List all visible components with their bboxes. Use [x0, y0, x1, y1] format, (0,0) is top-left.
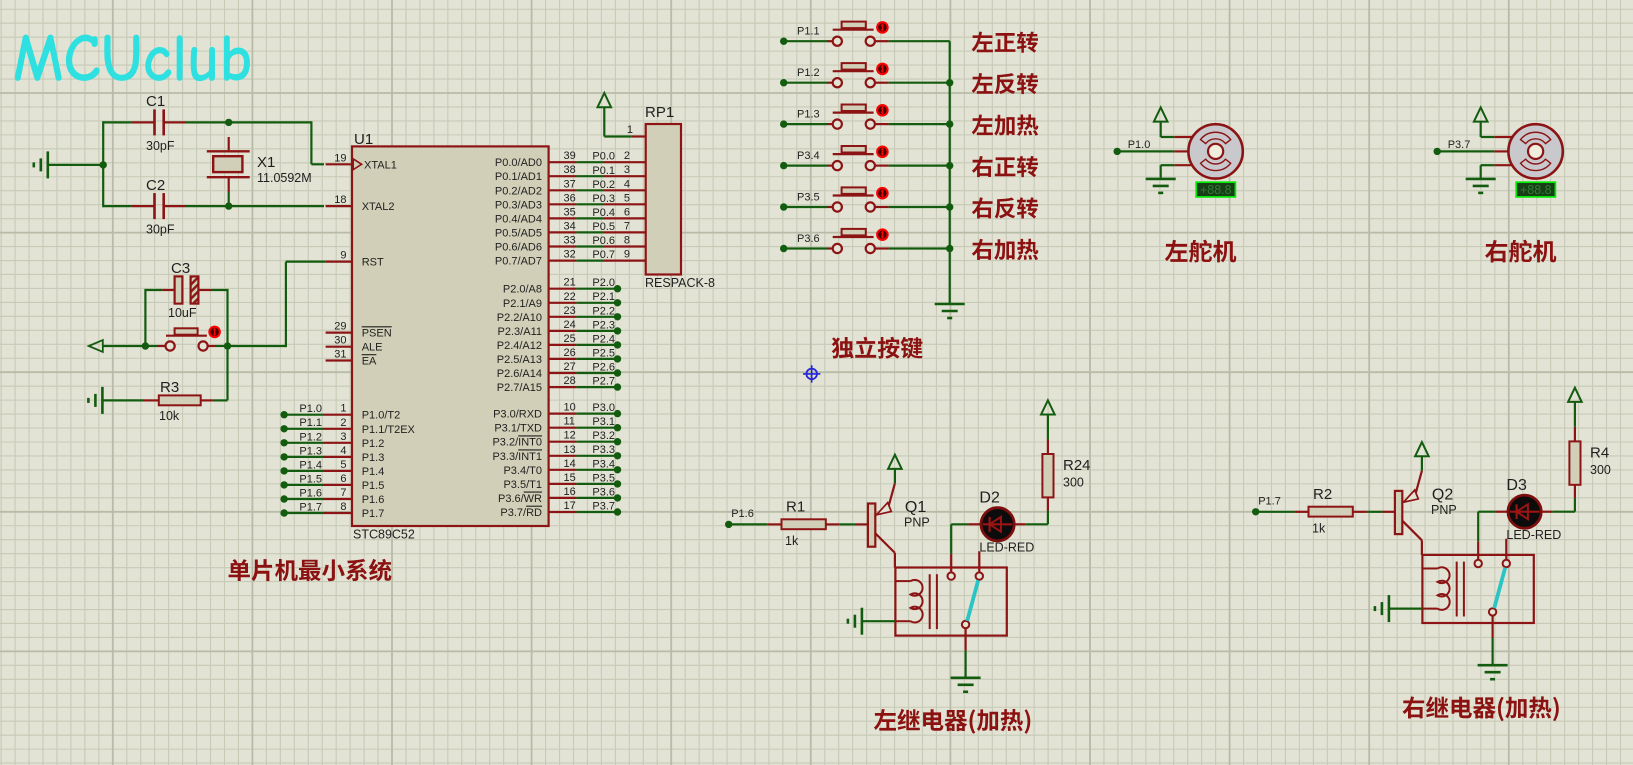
svg-text:15: 15: [564, 472, 576, 484]
svg-text:17: 17: [564, 500, 576, 512]
wire: [576, 316, 617, 318]
svg-text:P0.2/AD2: P0.2/AD2: [495, 185, 542, 197]
svg-text:P3.1: P3.1: [592, 416, 615, 428]
svg-text:23: 23: [564, 305, 576, 317]
node junction: [142, 342, 149, 349]
node P2.0 terminal: [614, 285, 621, 292]
wire: [576, 441, 617, 443]
svg-text:39: 39: [564, 150, 576, 162]
wire: [603, 107, 605, 136]
svg-text:4: 4: [624, 178, 630, 190]
svg-text:32: 32: [564, 249, 576, 261]
svg-text:P0.4: P0.4: [592, 207, 615, 219]
power symbol (Q1 emitter): [888, 455, 902, 469]
button interaction marker: [208, 326, 221, 339]
wire: [228, 192, 230, 206]
svg-text:R24: R24: [1063, 457, 1091, 474]
svg-text:14: 14: [564, 458, 576, 470]
pin 35 P0.4/AD4: [549, 217, 577, 219]
svg-text:P0.6/AD6: P0.6/AD6: [495, 242, 542, 254]
svg-text:5: 5: [624, 192, 630, 204]
wire: [102, 399, 143, 401]
svg-text:RST: RST: [362, 257, 384, 269]
svg-text:24: 24: [564, 319, 576, 331]
svg-text:P2.1: P2.1: [592, 291, 615, 303]
wire: [889, 82, 950, 84]
pin 3 P1.2: [324, 442, 352, 444]
svg-text:P1.0: P1.0: [299, 403, 322, 415]
svg-text:P2.3/A11: P2.3/A11: [498, 326, 542, 338]
svg-text:P1.3: P1.3: [299, 445, 322, 457]
node P1.7 terminal: [1252, 508, 1259, 515]
svg-text:10: 10: [564, 402, 576, 414]
resistor pack pin 5: [604, 203, 646, 205]
wire: [576, 344, 617, 346]
node junction: [225, 119, 232, 126]
wire: [226, 289, 228, 346]
wire: [784, 165, 827, 167]
svg-text:33: 33: [564, 235, 576, 247]
svg-text:C3: C3: [171, 260, 190, 277]
svg-text:P3.3/INT1: P3.3/INT1: [492, 451, 542, 463]
svg-text:+88.8: +88.8: [1520, 183, 1552, 197]
svg-text:P0.5: P0.5: [592, 221, 615, 233]
capacitor C1: [131, 121, 154, 123]
push button P1.1: [827, 40, 833, 42]
pin 28 P2.7/A15: [549, 386, 577, 388]
resistor R1: [768, 523, 782, 525]
svg-text:37: 37: [564, 178, 576, 190]
svg-text:P3.4: P3.4: [592, 458, 615, 470]
resistor R3: [144, 399, 159, 401]
wire: [889, 165, 950, 167]
wire: [784, 82, 827, 84]
ground (reset divider): [101, 387, 104, 414]
svg-text:13: 13: [564, 444, 576, 456]
svg-text:3: 3: [340, 431, 346, 443]
wire: [1389, 607, 1423, 609]
resistor pack pin 7: [604, 231, 646, 233]
resistor pack pin 1: [632, 135, 646, 137]
wire: [784, 40, 827, 42]
pin 15 P3.5/T1: [549, 483, 577, 485]
wire: [103, 205, 131, 207]
push button P1.3: [827, 123, 833, 125]
node P3.6 terminal: [614, 494, 621, 501]
node P3.7 terminal: [614, 508, 621, 515]
wire: [894, 469, 896, 483]
svg-text:P2.4: P2.4: [592, 333, 615, 345]
pin 7 P1.6: [324, 498, 352, 500]
relay lever: [967, 580, 978, 621]
svg-text:STC89C52: STC89C52: [353, 528, 415, 542]
svg-text:P0.3: P0.3: [592, 193, 615, 205]
wire: [576, 455, 617, 457]
wire: [1025, 523, 1048, 525]
wire: [576, 175, 603, 177]
pin 23 P2.2/A10: [549, 316, 577, 318]
svg-text:P2.3: P2.3: [592, 319, 615, 331]
svg-text:22: 22: [564, 291, 576, 303]
pin 13 P3.3/INT1: [549, 455, 577, 457]
wire: [284, 470, 324, 472]
resistor R2: [1295, 511, 1309, 513]
resistor pack pin 2: [604, 161, 646, 163]
label 右正转: [972, 156, 1038, 177]
wire: [576, 231, 603, 233]
title 右继电器(加热): [1403, 696, 1559, 721]
wire: [1480, 122, 1482, 138]
node P1.7 terminal: [280, 509, 287, 516]
svg-text:X1: X1: [257, 154, 275, 171]
node P1.0 terminal: [1114, 148, 1121, 155]
capacitor C3 (electrolytic): [162, 289, 174, 291]
svg-text:C1: C1: [146, 93, 165, 110]
transistor Q1 (PNP): [856, 523, 868, 525]
svg-text:9: 9: [624, 249, 630, 261]
pin 36 P0.3/AD3: [549, 203, 577, 205]
svg-text:P3.7: P3.7: [592, 501, 615, 513]
svg-text:P0.5/AD5: P0.5/AD5: [495, 227, 542, 239]
pin 19 XTAL1: [326, 163, 352, 165]
svg-text:P2.0/A8: P2.0/A8: [503, 284, 542, 296]
svg-text:26: 26: [564, 347, 576, 359]
pin 37 P0.2/AD2: [549, 189, 577, 191]
svg-text:12: 12: [564, 430, 576, 442]
svg-text:2: 2: [340, 417, 346, 429]
push button P3.6: [827, 247, 833, 249]
svg-text:XTAL1: XTAL1: [364, 159, 397, 171]
svg-text:30pF: 30pF: [146, 223, 175, 237]
pin 14 P3.4/T0: [549, 469, 577, 471]
wire: [576, 427, 617, 429]
power symbol (RP1 common): [598, 93, 612, 107]
pin 27 P2.6/A14: [549, 372, 577, 374]
svg-text:P1.1: P1.1: [299, 417, 322, 429]
node junction: [946, 120, 953, 127]
node P3.5 terminal: [780, 203, 787, 210]
pin 26 P2.5/A13: [549, 358, 577, 360]
svg-text:Q2: Q2: [1432, 486, 1453, 503]
wire: [284, 442, 324, 444]
servo angle display: [1516, 182, 1555, 197]
pin 11 P3.1/TXD: [549, 427, 577, 429]
node P3.0 terminal: [614, 410, 621, 417]
node P3.7 terminal: [1434, 148, 1441, 155]
svg-text:300: 300: [1063, 476, 1084, 490]
wire: [228, 345, 286, 347]
resistor pack pin 8: [604, 245, 646, 247]
motor (servo) body: [1508, 124, 1562, 178]
wire: [729, 523, 768, 525]
svg-text:P2.1/A9: P2.1/A9: [503, 298, 542, 310]
svg-text:30pF: 30pF: [146, 139, 175, 153]
wire: [211, 289, 228, 291]
node P3.1 terminal: [614, 424, 621, 431]
svg-text:P0.1/AD1: P0.1/AD1: [495, 171, 542, 183]
svg-text:21: 21: [564, 277, 576, 289]
motor pin: [1174, 136, 1192, 138]
wire: [576, 245, 603, 247]
node P1.3 terminal: [280, 453, 287, 460]
wire: [1367, 511, 1383, 513]
node junction: [224, 342, 231, 349]
svg-text:28: 28: [564, 375, 576, 387]
wire: [576, 189, 603, 191]
wire: [48, 164, 103, 166]
wire: [576, 413, 617, 415]
node P3.4 terminal: [614, 466, 621, 473]
svg-text:P0.3/AD3: P0.3/AD3: [495, 199, 542, 211]
ground (servo): [1466, 178, 1496, 181]
wire: [889, 247, 950, 249]
push button P1.2: [827, 82, 833, 84]
svg-text:18: 18: [334, 194, 346, 206]
wire: [1421, 457, 1423, 471]
wire: [576, 330, 617, 332]
wire: [186, 121, 311, 123]
wire: [576, 302, 617, 304]
svg-text:P0.0: P0.0: [592, 151, 615, 163]
svg-text:P0.4/AD4: P0.4/AD4: [495, 213, 542, 225]
label 右舵机: [1485, 240, 1556, 263]
svg-text:9: 9: [340, 250, 346, 262]
capacitor C2: [131, 205, 154, 207]
motor pin: [1174, 150, 1188, 152]
svg-text:P1.6: P1.6: [299, 488, 322, 500]
push button P3.5: [827, 206, 833, 208]
wire: [284, 456, 324, 458]
ground (relay coil): [1388, 595, 1391, 622]
svg-text:P1.3: P1.3: [797, 109, 820, 121]
svg-text:1: 1: [627, 124, 633, 136]
wire: [576, 161, 603, 163]
node junction: [946, 162, 953, 169]
wire: [1160, 122, 1162, 138]
LED D3: [1495, 511, 1508, 513]
node junction: [946, 79, 953, 86]
wire: [576, 483, 617, 485]
resistor pack pin 9: [604, 260, 646, 262]
svg-text:P1.2: P1.2: [797, 67, 820, 79]
svg-text:P3.0/RXD: P3.0/RXD: [493, 409, 542, 421]
pin 10 P3.0/RXD: [549, 413, 577, 415]
wire: [1491, 638, 1493, 665]
node P2.5 terminal: [614, 355, 621, 362]
svg-text:31: 31: [334, 349, 346, 361]
node P3.3 terminal: [614, 452, 621, 459]
wire: [1437, 150, 1494, 152]
svg-text:300: 300: [1590, 463, 1611, 477]
svg-text:P3.3: P3.3: [592, 444, 615, 456]
pin 25 P2.4/A12: [549, 344, 577, 346]
node P2.6 terminal: [614, 369, 621, 376]
resistor pack pin 3: [604, 175, 646, 177]
wire: [576, 260, 603, 262]
svg-text:P3.4: P3.4: [797, 150, 820, 162]
svg-text:P1.6: P1.6: [362, 494, 385, 506]
svg-text:P2.7/A15: P2.7/A15: [497, 382, 542, 394]
relay switch contacts: [1477, 541, 1479, 559]
motor pin: [1174, 164, 1192, 166]
svg-text:D3: D3: [1506, 477, 1527, 494]
wire: [1574, 402, 1576, 427]
svg-text:7: 7: [624, 220, 630, 232]
power symbol (servo +V): [1154, 107, 1168, 121]
wire: [889, 40, 950, 42]
svg-text:16: 16: [564, 486, 576, 498]
svg-text:7: 7: [340, 487, 346, 499]
svg-text:P3.7/RD: P3.7/RD: [500, 507, 542, 519]
svg-text:P3.2/INT0: P3.2/INT0: [492, 437, 542, 449]
svg-text:P1.1: P1.1: [797, 26, 820, 38]
ground (crystal): [46, 151, 49, 178]
wire: [889, 123, 950, 125]
svg-text:P1.4: P1.4: [299, 459, 322, 471]
transistor Q2 (PNP): [1383, 511, 1395, 513]
wire: [576, 288, 617, 290]
svg-text:P2.2/A10: P2.2/A10: [497, 312, 542, 324]
label 左正转: [972, 32, 1038, 53]
button interaction marker: [876, 187, 889, 200]
logo MCUclub watermark: [15, 35, 250, 82]
resistor pack pin 4: [604, 189, 646, 191]
push button P3.4: [827, 165, 833, 167]
title 左继电器(加热): [874, 709, 1030, 734]
node P1.2 terminal: [280, 439, 287, 446]
motor (servo) body: [1188, 124, 1242, 178]
resistor pack RP1 body: [646, 124, 681, 275]
svg-text:4: 4: [340, 445, 346, 457]
svg-text:P3.7: P3.7: [1448, 139, 1471, 151]
svg-text:R3: R3: [160, 379, 179, 396]
svg-text:19: 19: [334, 152, 346, 164]
wire: [103, 121, 131, 123]
svg-text:P0.0/AD0: P0.0/AD0: [495, 157, 542, 169]
svg-text:P2.5: P2.5: [592, 347, 615, 359]
svg-text:36: 36: [564, 192, 576, 204]
svg-text:10uF: 10uF: [168, 306, 197, 320]
pin 9 RST: [326, 261, 352, 263]
power symbol (Q2 emitter): [1415, 442, 1429, 456]
svg-text:P1.0/T2: P1.0/T2: [362, 410, 401, 422]
svg-text:P0.2: P0.2: [592, 179, 615, 191]
svg-text:P1.0: P1.0: [1128, 139, 1151, 151]
node P2.1 terminal: [614, 299, 621, 306]
wire: [145, 289, 162, 291]
wire: [576, 511, 617, 513]
svg-text:P2.2: P2.2: [592, 305, 615, 317]
svg-text:P2.0: P2.0: [592, 277, 615, 289]
pin 4 P1.3: [324, 456, 352, 458]
label 右反转: [972, 197, 1038, 218]
wire: [889, 206, 950, 208]
wire: [576, 497, 617, 499]
pin 24 P2.3/A11: [549, 330, 577, 332]
title 独立按键: [832, 337, 923, 359]
svg-text:R1: R1: [786, 499, 805, 516]
svg-text:PNP: PNP: [904, 516, 930, 530]
pin 6 P1.5: [324, 484, 352, 486]
svg-text:+88.8: +88.8: [1200, 183, 1232, 197]
svg-text:27: 27: [564, 361, 576, 373]
node P2.2 terminal: [614, 313, 621, 320]
button interaction marker: [876, 228, 889, 241]
pin 8 P1.7: [324, 512, 352, 514]
svg-text:P3.4/T0: P3.4/T0: [503, 465, 542, 477]
relay coil: [895, 580, 910, 582]
svg-text:P3.5: P3.5: [797, 192, 820, 204]
svg-text:P1.2: P1.2: [299, 431, 322, 443]
wire: [1552, 511, 1575, 513]
node junction: [946, 203, 953, 210]
wire: [103, 345, 146, 347]
ground (relay common): [951, 676, 981, 679]
node P1.3 terminal: [780, 120, 787, 127]
relay body: [895, 568, 1006, 636]
svg-text:P3.5: P3.5: [592, 472, 615, 484]
wire: [964, 651, 966, 678]
wire: [1117, 150, 1174, 152]
svg-text:2: 2: [624, 150, 630, 162]
button interaction marker: [876, 146, 889, 159]
wire (button bus): [949, 41, 951, 304]
svg-text:35: 35: [564, 206, 576, 218]
push button (reset): [145, 345, 157, 347]
wire: [284, 428, 324, 430]
svg-text:30: 30: [334, 335, 346, 347]
node P1.4 terminal: [280, 467, 287, 474]
pin 18 XTAL2: [326, 205, 352, 207]
origin marker: [806, 369, 817, 380]
node P2.7 terminal: [614, 383, 621, 390]
pin 21 P2.0/A8: [549, 288, 577, 290]
wire: [576, 203, 603, 205]
node P1.1 terminal: [780, 38, 787, 45]
pin 32 P0.7/AD7: [549, 260, 577, 262]
node P1.2 terminal: [780, 79, 787, 86]
button interaction marker: [876, 104, 889, 117]
svg-text:XTAL2: XTAL2: [362, 201, 395, 213]
label 左舵机: [1165, 240, 1236, 263]
svg-text:RESPACK-8: RESPACK-8: [645, 276, 715, 290]
button interaction marker: [876, 63, 889, 76]
pin 22 P2.1/A9: [549, 302, 577, 304]
terminal (reset net): [89, 340, 103, 352]
power symbol (R4): [1568, 388, 1582, 402]
svg-text:EA: EA: [362, 356, 377, 368]
pin 34 P0.5/AD5: [549, 231, 577, 233]
wire: [1477, 512, 1479, 542]
motor pin: [1494, 164, 1512, 166]
pin 17 P3.7/RD: [549, 511, 577, 513]
relay coil: [1422, 568, 1437, 570]
svg-text:8: 8: [340, 501, 346, 513]
pin 12 P3.2/INT0: [549, 441, 577, 443]
ground (relay common): [1478, 664, 1508, 667]
resistor R24: [1047, 497, 1049, 510]
wire: [1161, 164, 1175, 166]
svg-text:1: 1: [340, 403, 346, 415]
svg-text:P2.6: P2.6: [592, 362, 615, 374]
svg-text:1k: 1k: [785, 534, 799, 548]
node P3.2 terminal: [614, 438, 621, 445]
wire: [284, 512, 324, 514]
svg-text:ALE: ALE: [362, 342, 383, 354]
wire: [784, 206, 827, 208]
wire: [576, 358, 617, 360]
svg-text:LED-RED: LED-RED: [1506, 528, 1561, 542]
